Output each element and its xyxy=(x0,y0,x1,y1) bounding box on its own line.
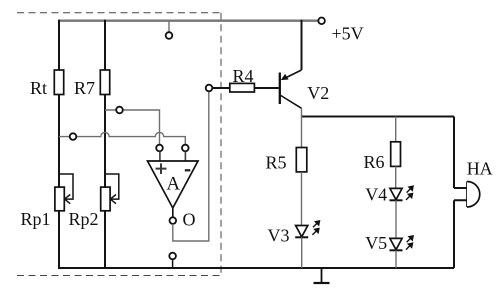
potentiometer Rp2 xyxy=(105,174,119,199)
resistor R7 xyxy=(100,70,109,95)
LED V5 xyxy=(390,238,402,249)
node R4 input terminal xyxy=(206,85,213,92)
svg-text:R4: R4 xyxy=(233,66,254,86)
wire terminal stub on top rail xyxy=(168,21,170,33)
wire V4 to V5 xyxy=(395,200,397,238)
LED V3 xyxy=(296,226,308,237)
svg-text:O: O xyxy=(183,209,196,229)
wire op-amp output stub xyxy=(172,208,174,217)
dashed module border xyxy=(17,12,221,14)
resistor R6 xyxy=(391,142,401,167)
wire R7 branch vertical xyxy=(104,20,106,268)
node R7 tap terminal xyxy=(116,107,123,114)
svg-text:A: A xyxy=(166,174,180,195)
resistor R4 xyxy=(212,87,279,89)
ground xyxy=(321,268,323,283)
svg-text:Rp1: Rp1 xyxy=(21,209,51,229)
node Rt tap terminal xyxy=(70,133,77,140)
resistor R5 xyxy=(296,148,307,172)
svg-text:V5: V5 xyxy=(365,233,387,253)
node ground terminal in module xyxy=(169,253,176,260)
svg-text:+5V: +5V xyxy=(332,23,364,43)
node op-amp plus input terminal xyxy=(156,145,163,152)
wire Rt branch vertical xyxy=(58,20,60,268)
transistor V2 xyxy=(301,20,303,70)
op-amp A xyxy=(148,161,199,208)
wire ground rail xyxy=(58,267,454,269)
wire V3 to ground rail xyxy=(301,237,303,268)
wire Rt tap to op-amp minus input (with hops) xyxy=(59,132,185,144)
wire branch down to R6 xyxy=(395,117,397,142)
node op-amp output terminal O xyxy=(170,217,177,224)
LED V4 xyxy=(390,188,402,199)
svg-text:HA: HA xyxy=(467,159,493,179)
svg-text:R6: R6 xyxy=(364,152,385,172)
buzzer HA xyxy=(466,182,468,208)
wire R7 tap to op-amp plus input xyxy=(105,110,160,145)
svg-text:Rp2: Rp2 xyxy=(69,209,99,229)
resistor Rt xyxy=(54,70,63,95)
node +5V terminal xyxy=(318,18,325,25)
svg-text:V2: V2 xyxy=(307,83,329,103)
node op-amp minus input terminal xyxy=(182,145,189,152)
wire op-amp output to R4 terminal xyxy=(173,91,209,241)
svg-text:V4: V4 xyxy=(365,185,387,205)
wire op-amp input stubs xyxy=(160,151,186,161)
wire right branch to buzzer xyxy=(454,117,467,269)
wire collector branch xyxy=(302,116,455,118)
potentiometer Rp1 xyxy=(59,174,73,199)
wire V5 to ground rail xyxy=(395,250,397,268)
wire top rail +5V xyxy=(59,20,319,22)
svg-text:R7: R7 xyxy=(74,78,95,98)
wire R5 to V3 xyxy=(301,172,303,226)
svg-text:V3: V3 xyxy=(268,226,290,246)
svg-text:R5: R5 xyxy=(266,153,287,173)
wire R6 to V4 xyxy=(395,166,397,188)
wire collector down to R5 xyxy=(301,108,303,147)
wire ground terminal stub xyxy=(172,259,174,268)
node terminal on top rail xyxy=(166,32,173,39)
svg-text:Rt: Rt xyxy=(30,78,47,98)
